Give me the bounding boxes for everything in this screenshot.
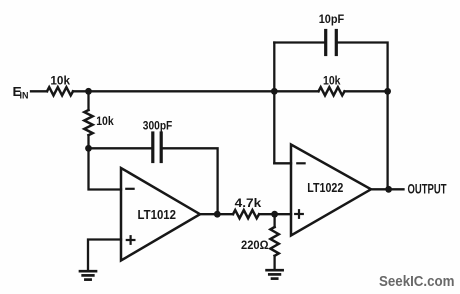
wire C1 right plate to corner then down to node D xyxy=(163,148,218,214)
wire U1 output to node D xyxy=(200,213,233,215)
wire R4 to ground xyxy=(273,256,275,269)
wire node E down to R4 xyxy=(273,214,275,227)
U2 plus sign xyxy=(295,210,303,218)
wire U2 minus stub to feedback vertical xyxy=(274,162,291,164)
svg-text:10k: 10k xyxy=(96,114,114,128)
node E junction xyxy=(271,211,278,218)
svg-text:10pF: 10pF xyxy=(319,12,345,26)
U1 plus sign xyxy=(127,236,135,244)
U2 minus sign xyxy=(297,162,304,164)
svg-text:LT1012: LT1012 xyxy=(138,208,177,222)
resistor R3 4.7k xyxy=(233,210,259,218)
wire R3 to node E and on to U2 plus input xyxy=(259,213,291,215)
capacitor C2 10pF xyxy=(326,31,337,55)
op-amp U1 LT1012 xyxy=(121,168,200,261)
resistor R2 10k (vertical) xyxy=(84,110,92,135)
wire left feedback vertical (node B up to C2, down to minus stub) xyxy=(273,43,275,164)
wire node C down to minus input U1 xyxy=(89,148,122,189)
wire Ein to R1 xyxy=(31,90,47,92)
wire R1 to node A xyxy=(73,90,89,92)
svg-text:4.7k: 4.7k xyxy=(235,196,262,210)
ground GND1 xyxy=(80,271,96,279)
wire R5 to node F xyxy=(345,90,388,92)
op-amp U2 LT1022 xyxy=(291,145,371,236)
U1 minus sign xyxy=(126,188,133,190)
svg-text:LT1022: LT1022 xyxy=(307,181,343,195)
node D junction xyxy=(214,211,221,218)
svg-text:300pF: 300pF xyxy=(143,118,173,132)
svg-text:10k: 10k xyxy=(323,74,341,88)
node C junction xyxy=(85,145,92,152)
wire U2 output xyxy=(371,188,404,190)
wire R2 to node C xyxy=(87,135,89,148)
svg-text:IN: IN xyxy=(20,91,29,102)
wire node A down to R2 xyxy=(87,91,89,110)
node Ein label xyxy=(13,84,29,102)
ground GND2 xyxy=(267,270,283,278)
resistor R4 220 ohm xyxy=(270,227,278,256)
wire node C to C1 left plate xyxy=(89,147,152,149)
svg-text:220Ω: 220Ω xyxy=(241,238,269,252)
wire C2 right leg and right feedback vertical down to output node xyxy=(338,43,388,190)
wire C2 left leg xyxy=(274,41,324,43)
wire U1 plus input to ground xyxy=(88,240,121,270)
capacitor C1 300pF xyxy=(153,133,161,162)
node B junction xyxy=(271,88,278,95)
node A junction xyxy=(85,88,92,95)
svg-text:SeekIC.com: SeekIC.com xyxy=(379,274,455,290)
resistor R5 10k (feedback) xyxy=(319,87,345,95)
svg-text:OUTPUT: OUTPUT xyxy=(408,182,448,197)
wire node B to R5 xyxy=(274,90,318,92)
node F junction xyxy=(384,88,391,95)
node G output junction xyxy=(385,186,392,193)
svg-text:10k: 10k xyxy=(50,74,70,88)
wire node A to node B (main horizontal) xyxy=(89,90,275,92)
resistor R1 10k (input) xyxy=(47,87,73,95)
